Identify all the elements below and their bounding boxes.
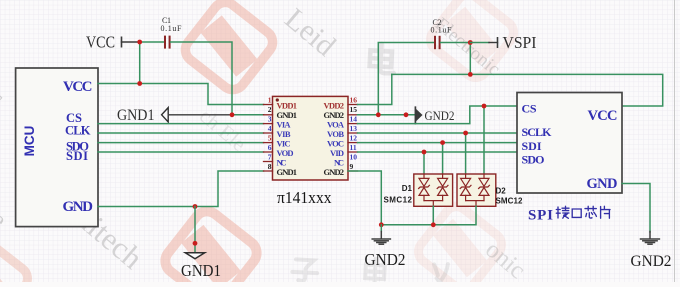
svg-text:NC: NC bbox=[334, 158, 344, 168]
svg-text:6: 6 bbox=[268, 143, 272, 152]
wire VSPI junction down to top rail bbox=[469, 43, 471, 75]
junction dot rail left bbox=[379, 222, 384, 227]
hanzi kou bbox=[572, 209, 581, 217]
svg-text:SMC12: SMC12 bbox=[496, 197, 524, 206]
svg-text:VIB: VIB bbox=[277, 129, 291, 139]
svg-text:SMC12: SMC12 bbox=[384, 195, 413, 204]
ground GND1 (bottom left) bbox=[181, 253, 221, 280]
gray hanzi watermarks bbox=[292, 43, 454, 287]
wire SPI GND to ground bbox=[622, 184, 650, 233]
svg-text:VOB: VOB bbox=[327, 129, 344, 139]
wire pin16 VDD2 up to top rail bbox=[358, 74, 392, 104]
pin names right column bbox=[324, 101, 345, 178]
svg-text:5: 5 bbox=[268, 134, 272, 143]
svg-text:D1: D1 bbox=[402, 184, 413, 193]
svg-text:GND2: GND2 bbox=[324, 167, 345, 177]
svg-text:16: 16 bbox=[350, 96, 358, 105]
TVS diode D2 SMC12 bbox=[457, 174, 496, 206]
svg-text:GND2: GND2 bbox=[324, 110, 345, 120]
svg-text:VCC: VCC bbox=[86, 32, 115, 51]
WATERMARKS bbox=[0, 0, 518, 287]
wire pin15 GND2 row bbox=[358, 114, 416, 116]
svg-text:GND: GND bbox=[63, 199, 94, 215]
wire C1 right to GND1 net bbox=[171, 42, 232, 115]
svg-text:NC: NC bbox=[277, 158, 287, 168]
isolator chip U1 pi141xxx bbox=[273, 96, 349, 180]
junction dot CS/TVS bbox=[482, 104, 487, 109]
wire SDI net pin12 to SPI bbox=[358, 142, 518, 144]
junction dot SDO/TVS bbox=[422, 150, 427, 155]
svg-text:D2: D2 bbox=[496, 187, 507, 196]
svg-text:7: 7 bbox=[268, 153, 272, 162]
svg-text:CS: CS bbox=[522, 102, 537, 116]
svg-text:GND1: GND1 bbox=[181, 261, 221, 280]
svg-text:SPI: SPI bbox=[528, 208, 553, 224]
ground GND2 (bottom middle) bbox=[365, 225, 406, 269]
wire C2 left leg bbox=[378, 43, 434, 115]
junction dot pin15 left bbox=[376, 112, 381, 117]
svg-text:GND2: GND2 bbox=[425, 109, 455, 123]
svg-text:VCC: VCC bbox=[63, 79, 93, 95]
ground GND2 (bottom right) bbox=[631, 232, 672, 271]
wire VCC port to C1 bbox=[140, 41, 164, 43]
pin names left column bbox=[277, 101, 298, 178]
wire pin9 GND2 down bbox=[348, 171, 381, 225]
svg-text:GND: GND bbox=[587, 176, 618, 192]
svg-text:4: 4 bbox=[268, 124, 272, 133]
capacitor C1 bbox=[161, 16, 183, 49]
hanzi pian bbox=[601, 206, 610, 218]
svg-text:VOD: VOD bbox=[277, 148, 294, 158]
svg-text:GND2: GND2 bbox=[365, 250, 406, 269]
pin stubs left bbox=[264, 105, 273, 172]
svg-text:SDO: SDO bbox=[522, 153, 545, 167]
svg-text:GND1: GND1 bbox=[277, 110, 298, 120]
SPI interface chip box bbox=[517, 93, 622, 194]
svg-text:SDI: SDI bbox=[522, 139, 542, 153]
svg-text:2: 2 bbox=[268, 105, 272, 114]
wire SDI row MCU to pin6 bbox=[98, 151, 264, 153]
wire SDO row MCU to pin5 bbox=[98, 142, 264, 144]
junction dot pin15 right bbox=[404, 112, 409, 117]
power port GND2 (mid) bbox=[415, 107, 454, 123]
svg-text:11: 11 bbox=[350, 143, 357, 152]
MCU box U? bbox=[16, 68, 98, 227]
svg-text:π141xxx: π141xxx bbox=[277, 188, 332, 207]
svg-text:GND2: GND2 bbox=[631, 253, 672, 270]
junction dot SCLK/TVS bbox=[463, 131, 468, 136]
wire CLK row MCU to pin4 bbox=[98, 132, 264, 134]
junction dot above GND1 symbol bbox=[193, 241, 198, 246]
hanzi xin bbox=[585, 206, 596, 218]
svg-text:GND1: GND1 bbox=[277, 167, 298, 177]
svg-text:VSPI: VSPI bbox=[503, 33, 537, 52]
wire GND2 bottom rail bbox=[381, 206, 476, 225]
SPI chip caption bbox=[528, 206, 610, 223]
svg-text:SCLK: SCLK bbox=[522, 125, 553, 139]
capacitor C2 bbox=[431, 18, 453, 49]
junction dot C2 right bbox=[468, 40, 473, 45]
wire GND stem down bbox=[194, 207, 196, 253]
wire TVS lead 1 bbox=[423, 152, 425, 174]
svg-text:GND1: GND1 bbox=[117, 107, 155, 124]
wire GND1 to chip pin2 bbox=[232, 114, 264, 116]
wire MCU GND to chip pin8 bbox=[98, 171, 264, 207]
wire top rail VSPI net bbox=[392, 74, 663, 106]
svg-text:12: 12 bbox=[350, 134, 358, 143]
watermark edge fragments bbox=[0, 85, 11, 234]
junction dot GND row bbox=[193, 204, 198, 209]
svg-text:VDD2: VDD2 bbox=[324, 101, 345, 111]
pin stubs right bbox=[348, 105, 358, 172]
svg-text:VID: VID bbox=[330, 148, 344, 158]
power port VSPI bbox=[470, 33, 537, 52]
pin numbers left 1-8 bbox=[268, 96, 272, 172]
svg-text:CLK: CLK bbox=[65, 124, 91, 138]
svg-text:1: 1 bbox=[268, 96, 272, 105]
wire SDO net pin11 to SPI bbox=[358, 151, 518, 153]
wire VCC vertical bbox=[139, 42, 141, 84]
svg-text:VCC: VCC bbox=[588, 108, 618, 124]
svg-text:VDD1: VDD1 bbox=[277, 101, 298, 111]
svg-text:SDI: SDI bbox=[66, 149, 88, 163]
svg-text:0.1uF: 0.1uF bbox=[431, 26, 453, 35]
power port GND1 bbox=[117, 107, 232, 124]
svg-text:15: 15 bbox=[350, 105, 358, 114]
svg-text:9: 9 bbox=[350, 162, 354, 171]
svg-text:MCU: MCU bbox=[22, 126, 37, 157]
wire TVS lead 4 bbox=[483, 106, 485, 174]
power port VCC bbox=[86, 32, 140, 51]
junction dot top rail bbox=[468, 72, 473, 77]
wire TVS lead 2 bbox=[442, 143, 444, 174]
pin numbers right 16-9 bbox=[350, 96, 358, 172]
hanzi jie bbox=[556, 206, 569, 218]
junction dot rail D1 bbox=[431, 222, 436, 227]
wire C2 right to VSPI junction bbox=[441, 42, 471, 44]
junction dot GND1 row bbox=[230, 112, 235, 117]
sheet border right bbox=[674, 0, 676, 282]
svg-text:13: 13 bbox=[350, 124, 358, 133]
svg-text:10: 10 bbox=[350, 153, 358, 162]
wire MCU VCC to chip pin1 bbox=[98, 84, 264, 105]
svg-text:14: 14 bbox=[350, 115, 358, 124]
svg-text:8: 8 bbox=[268, 162, 272, 171]
junction dot VCC top bbox=[137, 40, 142, 45]
wire SCLK net pin13 to SPI bbox=[358, 132, 518, 134]
TVS diode D1 SMC12 bbox=[414, 174, 453, 206]
svg-text:3: 3 bbox=[268, 115, 272, 124]
wire VOA/CS net pin14 to SPI CS bbox=[358, 106, 518, 124]
wire CS row MCU to pin3 bbox=[98, 123, 264, 125]
wire TVS lead 3 bbox=[465, 133, 467, 174]
junction dot VCC row bbox=[137, 81, 142, 86]
svg-text:0.1uF: 0.1uF bbox=[161, 24, 183, 33]
junction dot SDI/TVS bbox=[440, 140, 445, 145]
